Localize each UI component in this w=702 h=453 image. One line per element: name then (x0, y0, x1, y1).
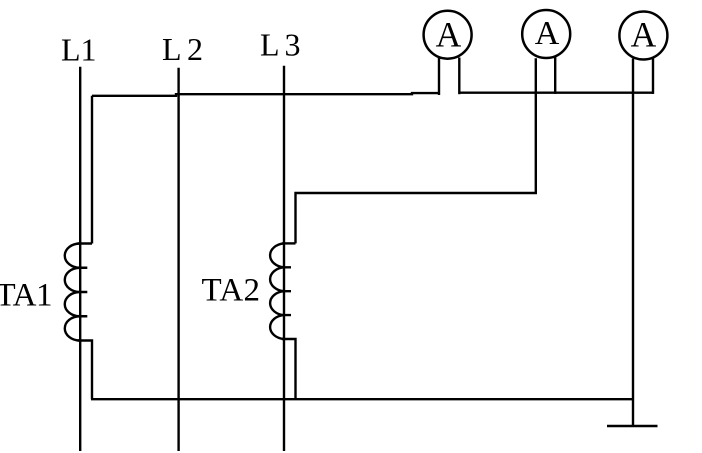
wire line L2 (177, 68, 179, 451)
svg-text:A: A (535, 15, 560, 52)
ammeter A1 (424, 11, 472, 59)
wire ammeter A1 left leg (438, 58, 440, 96)
wire ammeter A1 right leg (458, 58, 460, 95)
transformer TA2 coil (270, 243, 291, 339)
ammeter A2 (522, 10, 570, 58)
wire top bus right segment (459, 91, 654, 93)
wire TA2 jog (282, 242, 296, 244)
wire top bus left segment (92, 93, 439, 96)
svg-text:L1: L1 (61, 32, 97, 68)
wire ammeter A3 right leg (652, 59, 654, 94)
wire line L3 (283, 66, 285, 451)
wire TA2 secondary top lead (296, 58, 536, 243)
wire TA1 secondary top lead (78, 96, 93, 244)
wire line L1 (79, 67, 81, 451)
ammeter A3 (619, 12, 667, 60)
ground (607, 425, 658, 428)
wire TA1 secondary bottom lead (78, 341, 93, 400)
svg-text:TA1: TA1 (0, 278, 52, 314)
svg-text:L3: L3 (260, 27, 306, 63)
wire TA2 secondary bottom lead (282, 339, 296, 399)
transformer TA1 coil (65, 244, 88, 341)
wire bottom bus (91, 398, 632, 400)
wire ammeter A2 right leg (554, 57, 556, 94)
svg-text:A: A (436, 15, 462, 55)
wire ammeter A3 left leg to ground (632, 59, 634, 427)
svg-text:A: A (631, 15, 657, 55)
svg-text:L2: L2 (162, 31, 209, 67)
svg-text:TA2: TA2 (202, 272, 261, 308)
